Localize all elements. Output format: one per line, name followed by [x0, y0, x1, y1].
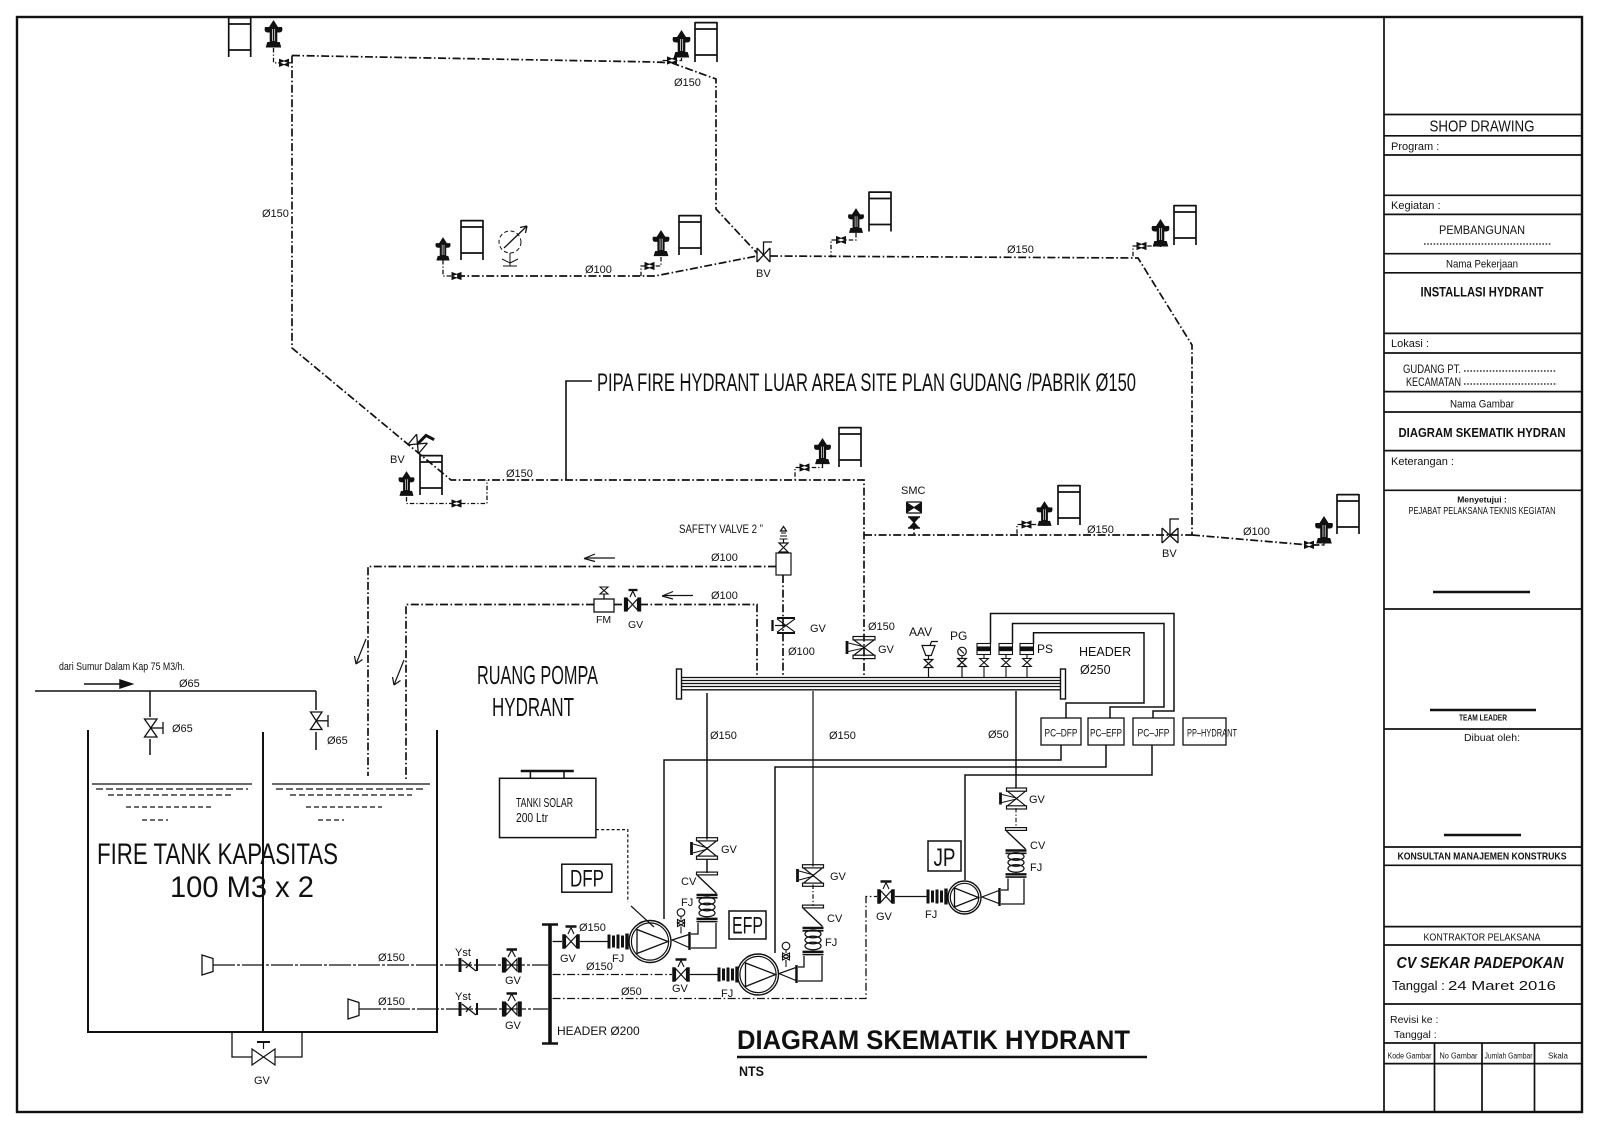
JP pump: [948, 881, 981, 914]
header O200 bar: [542, 925, 558, 1044]
svg-text:FJ: FJ: [925, 909, 937, 921]
SMC symbol: [907, 502, 922, 528]
y-strainer 1: [460, 958, 477, 972]
svg-text:GV: GV: [878, 644, 895, 656]
svg-text:GV: GV: [672, 983, 689, 995]
svg-text:GV: GV: [254, 1075, 271, 1087]
JP GV top: [1001, 788, 1027, 809]
hydrant box B9: [420, 455, 442, 495]
svg-text:Ø150: Ø150: [262, 208, 289, 220]
EFP pump: [738, 954, 779, 995]
valve V7: [1022, 521, 1031, 528]
svg-text:SMC: SMC: [901, 485, 926, 497]
EFP riser pipe: [812, 691, 814, 906]
pipe main left loop O150: [292, 56, 1319, 678]
tank water level tank2: [272, 784, 430, 820]
control line PC-EFP to pump: [775, 745, 1106, 953]
control box PC-DFP: [1041, 718, 1081, 745]
svg-text:Ø150: Ø150: [674, 77, 701, 89]
pipe O100 branch: [457, 256, 757, 276]
safety valve symbol: [776, 527, 791, 576]
hydrant pillar H7: [1037, 501, 1053, 526]
svg-text:Keterangan :: Keterangan :: [1391, 456, 1454, 468]
butterfly valve BV2 rotated: [408, 429, 435, 456]
EFP gauge: [782, 942, 790, 967]
svg-text:EFP: EFP: [732, 913, 763, 940]
control box PC-JFP: [1133, 718, 1174, 745]
svg-text:DIAGRAM SKEMATIK HYDRANT: DIAGRAM SKEMATIK HYDRANT: [737, 1025, 1130, 1055]
svg-text:GV: GV: [628, 619, 643, 631]
svg-text:Ø150: Ø150: [378, 996, 405, 1008]
header O250: [677, 669, 1066, 699]
svg-text:Ø65: Ø65: [172, 723, 193, 735]
tank water level tank1: [92, 784, 252, 820]
svg-text:PC–DFP: PC–DFP: [1045, 728, 1078, 740]
suction pipe 1: [213, 964, 548, 966]
EFP outlet cone: [779, 968, 796, 981]
JP elbow: [1000, 879, 1025, 907]
svg-text:HEADER Ø200: HEADER Ø200: [557, 1024, 640, 1038]
JP inlet cone: [982, 891, 999, 904]
svg-text:Ø150: Ø150: [1087, 524, 1114, 536]
svg-text:PP–HYDRANT: PP–HYDRANT: [1187, 728, 1237, 740]
svg-text:Nama Pekerjaan: Nama Pekerjaan: [1446, 259, 1518, 271]
pipe mid O150 run: [864, 534, 1192, 536]
svg-text:RUANG POMPA: RUANG POMPA: [477, 660, 598, 690]
arrow left line B: [662, 592, 693, 600]
pipe right O100 branch: [1192, 535, 1303, 545]
svg-text:KECAMATAN: KECAMATAN: [1406, 377, 1461, 389]
svg-text:Ø250: Ø250: [1080, 663, 1111, 677]
DFP outlet cone: [672, 935, 689, 948]
svg-text:FJ: FJ: [825, 937, 837, 949]
svg-text:PEJABAT PELAKSANA TEKNIS KEGIA: PEJABAT PELAKSANA TEKNIS KEGIATAN: [1409, 505, 1556, 517]
EFP riser FJ: [803, 930, 824, 954]
svg-text:Kode Gambar: Kode Gambar: [1388, 1052, 1432, 1061]
valve V1: [279, 59, 288, 66]
gate valve GV beside FM: [625, 590, 641, 611]
pipe top run O150: [292, 56, 757, 254]
DFP elbow: [690, 923, 717, 950]
svg-text:JP: JP: [934, 844, 956, 872]
gate valve suction 2: [503, 994, 522, 1017]
valve V8: [1304, 541, 1313, 548]
text RUANG POMPA HYDRANT: [477, 660, 598, 722]
svg-text:Skala: Skala: [1548, 1052, 1569, 1061]
hydrant pillar H1: [265, 20, 283, 48]
EFP suction GV: [673, 960, 690, 982]
drain valve GV: [252, 1042, 275, 1065]
hydrant pillar H3: [1152, 219, 1170, 247]
AAV symbol: [922, 642, 938, 678]
valve V9: [452, 500, 461, 507]
svg-text:Revisi ke :: Revisi ke :: [1390, 1014, 1438, 1026]
gate valve on safety drop: [773, 618, 796, 633]
tanki solar box: [500, 771, 596, 838]
svg-text:GV: GV: [560, 953, 577, 965]
JP supply from header: [1015, 691, 1017, 788]
svg-text:SHOP DRAWING: SHOP DRAWING: [1430, 119, 1535, 136]
svg-text:SAFETY VALVE 2 ”: SAFETY VALVE 2 ”: [679, 524, 763, 536]
svg-text:NTS: NTS: [739, 1063, 764, 1079]
svg-text:BV: BV: [390, 454, 405, 466]
svg-text:PEMBANGUNAN: PEMBANGUNAN: [1439, 223, 1525, 237]
svg-text:Lokasi :: Lokasi :: [1391, 338, 1429, 350]
svg-text:200 Ltr: 200 Ltr: [516, 810, 549, 825]
svg-text:DIAGRAM SKEMATIK HYDRAN: DIAGRAM SKEMATIK HYDRAN: [1399, 425, 1566, 440]
control box PC-EFP: [1088, 718, 1124, 745]
arrow dari sumur: [84, 680, 132, 688]
svg-text:24 Maret 2016: 24 Maret 2016: [1448, 978, 1556, 993]
leader line PIPA FIRE HYDRANT: [566, 381, 592, 480]
bellmouth 2: [348, 999, 359, 1019]
svg-text:GV: GV: [876, 911, 893, 923]
svg-text:Ø150: Ø150: [829, 730, 856, 742]
svg-text:AAV: AAV: [909, 625, 932, 639]
svg-text:Ø150: Ø150: [1007, 244, 1034, 256]
JP suction pipe: [895, 896, 928, 898]
svg-text:Ø150: Ø150: [506, 468, 533, 480]
valve V10: [836, 236, 845, 243]
label HEADER O250: [1079, 645, 1131, 677]
DFP riser CV: [697, 872, 718, 898]
DFP riser FJ: [697, 897, 718, 921]
title underline: [737, 1056, 1147, 1059]
svg-text:DFP: DFP: [570, 866, 604, 893]
valve V6: [800, 464, 809, 471]
EFP riser CV: [803, 905, 824, 931]
flow meter FM: [594, 587, 614, 612]
O50 bottom line: [553, 897, 878, 999]
DFP box: [562, 864, 612, 892]
text FIRE TANK KAPASITAS 100 M3 x 2: [97, 838, 338, 904]
hydrant box B1: [229, 17, 251, 57]
butterfly valve BV3: [1162, 519, 1179, 543]
PS symbol 2: [999, 644, 1013, 678]
hydrant box B6: [839, 427, 861, 467]
svg-text:Tanggal :: Tanggal :: [1394, 1029, 1437, 1041]
hydrant pillar H8: [1315, 516, 1333, 544]
svg-text:FJ: FJ: [612, 953, 624, 965]
hydrant pillar H9: [399, 471, 415, 496]
PS symbol 3: [1020, 644, 1034, 678]
svg-text:Ø100: Ø100: [788, 646, 815, 658]
fuel line to DFP pump: [596, 830, 654, 927]
hydrant pillar H4: [435, 237, 450, 260]
svg-text:Ø100: Ø100: [585, 264, 612, 276]
pipe after BV1 to right corner: [770, 256, 1192, 535]
tree symbol: [499, 226, 527, 266]
svg-text:FJ: FJ: [1030, 862, 1042, 874]
big gate valve main drop: [847, 637, 875, 659]
arrow down line B: [393, 660, 405, 685]
pump room line A O100: [368, 522, 914, 780]
JP dash to CV: [1015, 808, 1017, 828]
svg-text:Ø65: Ø65: [179, 678, 200, 690]
svg-text:Ø150: Ø150: [378, 952, 405, 964]
DFP riser pipe: [706, 693, 708, 873]
EFP riser GV: [798, 865, 824, 887]
DFP riser GV: [692, 838, 718, 860]
valve V5: [645, 262, 654, 269]
svg-text:GV: GV: [830, 871, 847, 883]
suction pipe 2: [359, 1008, 548, 1010]
hydrant pillar H5: [653, 230, 670, 256]
tank drain pipe: [232, 1032, 302, 1057]
JP box: [928, 841, 961, 871]
arrow down line A: [355, 639, 367, 664]
svg-text:CV: CV: [681, 876, 697, 888]
svg-text:Ø150: Ø150: [710, 730, 737, 742]
valve O65 no1: [145, 719, 164, 737]
svg-text:Kegiatan :: Kegiatan :: [1391, 200, 1441, 212]
svg-text:PG: PG: [950, 629, 967, 643]
svg-text:Ø100: Ø100: [1243, 526, 1270, 538]
DFP suction FJ: [609, 934, 627, 950]
DFP pump: [629, 921, 671, 963]
JP suction GV: [878, 882, 895, 904]
valve O65 no2: [311, 712, 329, 730]
arrow left line A: [584, 554, 615, 562]
safety valve drop O100: [782, 575, 784, 677]
hydrant box B8: [1337, 494, 1359, 534]
DFP gauge: [677, 909, 685, 934]
svg-text:BV: BV: [756, 268, 771, 280]
gate valve suction 1: [503, 950, 522, 973]
svg-text:CV: CV: [1030, 840, 1046, 852]
EFP suction pipe: [553, 974, 719, 976]
wire loop middle to PC-EFP: [1013, 624, 1165, 719]
control line PC-JFP to pump: [965, 745, 1152, 880]
svg-text:KONTRAKTOR PELAKSANA: KONTRAKTOR PELAKSANA: [1424, 932, 1541, 944]
hydrant box B2: [695, 22, 717, 62]
svg-text:INSTALLASI HYDRANT: INSTALLASI HYDRANT: [1421, 285, 1545, 300]
control box PP-HYDRANT: [1183, 718, 1226, 745]
wire loop outer to PC-JFP: [991, 614, 1175, 719]
valve V4: [452, 272, 461, 279]
svg-text:Dibuat oleh:: Dibuat oleh:: [1464, 732, 1520, 744]
svg-text:dari Sumur Dalam Kap 75 M3/h.: dari Sumur Dalam Kap 75 M3/h.: [59, 661, 185, 673]
svg-text:Ø150: Ø150: [868, 621, 895, 633]
hydrant box B10: [869, 192, 891, 232]
svg-text:GV: GV: [505, 1020, 522, 1032]
valve V3: [1137, 242, 1146, 249]
svg-text:FIRE TANK KAPASITAS: FIRE TANK KAPASITAS: [97, 838, 338, 871]
hydrant box B5: [679, 215, 701, 255]
fire tank walls: [88, 730, 437, 1032]
svg-text:GV: GV: [505, 975, 522, 987]
hydrant branch connectors: [274, 48, 1325, 545]
svg-text:Yst: Yst: [455, 947, 471, 959]
svg-text:TANKI SOLAR: TANKI SOLAR: [516, 795, 573, 810]
svg-text:Jumlah Gambar: Jumlah Gambar: [1485, 1052, 1533, 1061]
svg-text:Ø150: Ø150: [586, 961, 613, 973]
svg-text:GV: GV: [810, 623, 827, 635]
hydrant box B7: [1058, 485, 1080, 525]
svg-text:Yst: Yst: [455, 991, 471, 1003]
svg-text:PC–JFP: PC–JFP: [1138, 728, 1170, 740]
svg-text:Ø65: Ø65: [327, 735, 348, 747]
svg-text:Menyetujui :: Menyetujui :: [1457, 495, 1507, 505]
hydrant box B4: [461, 220, 483, 260]
butterfly valve BV1: [757, 242, 772, 262]
svg-text:PIPA FIRE HYDRANT LUAR AREA S: PIPA FIRE HYDRANT LUAR AREA SITE PLAN GU…: [597, 369, 1136, 397]
EFP box: [729, 911, 766, 939]
svg-text:CV SEKAR PADEPOKAN: CV SEKAR PADEPOKAN: [1397, 955, 1565, 972]
pump room line B O100: [406, 605, 594, 781]
svg-text:HYDRANT: HYDRANT: [492, 692, 574, 722]
hydrant pillar H10: [848, 208, 864, 233]
DFP suction GV: [563, 927, 580, 949]
EFP elbow: [797, 956, 823, 983]
JP CV: [1006, 828, 1027, 854]
svg-text:FJ: FJ: [681, 897, 693, 909]
svg-text:Ø100: Ø100: [711, 552, 738, 564]
valve V2: [667, 57, 676, 64]
svg-text:CV: CV: [827, 913, 843, 925]
text TANKI SOLAR 200 Ltr: [516, 795, 573, 825]
hydrant pillar H2: [673, 30, 691, 58]
svg-text:PS: PS: [1037, 642, 1053, 656]
control line PC-DFP to pump: [664, 745, 1152, 953]
svg-text:Ø100: Ø100: [711, 590, 738, 602]
title block signature lines: [1424, 244, 1557, 835]
svg-text:Tanggal :: Tanggal :: [1392, 978, 1445, 993]
svg-text:FM: FM: [596, 614, 611, 626]
svg-text:Program :: Program :: [1391, 141, 1439, 153]
svg-text:TEAM LEADER: TEAM LEADER: [1459, 713, 1507, 723]
hydrant box B3: [1174, 205, 1196, 245]
svg-text:GV: GV: [721, 844, 738, 856]
y-strainer 2: [460, 1002, 477, 1016]
SMC stub: [913, 522, 915, 535]
fill line dari sumur: [35, 691, 316, 755]
JP FJ: [1006, 853, 1027, 877]
svg-text:GUDANG PT.: GUDANG PT.: [1403, 364, 1461, 376]
title block texts: [1388, 119, 1569, 1061]
svg-text:KONSULTAN MANAJEMEN KONSTRUKS: KONSULTAN MANAJEMEN KONSTRUKS: [1398, 851, 1567, 863]
svg-text:Ø50: Ø50: [988, 729, 1009, 741]
svg-text:PC–EFP: PC–EFP: [1090, 728, 1122, 740]
svg-text:Ø50: Ø50: [621, 986, 642, 998]
svg-text:Ø150: Ø150: [579, 922, 606, 934]
svg-text:Nama Gambar: Nama Gambar: [1450, 399, 1514, 411]
svg-text:No Gambar: No Gambar: [1440, 1052, 1478, 1061]
svg-text:100 M3 x 2: 100 M3 x 2: [170, 871, 314, 904]
PG symbol: [958, 647, 967, 677]
hydrant pillar H6: [814, 438, 831, 464]
EFP suction FJ: [719, 967, 737, 983]
svg-text:HEADER: HEADER: [1079, 645, 1131, 659]
wire loop inner to PC-DFP: [1034, 633, 1145, 718]
DFP suction pipe: [553, 941, 609, 943]
svg-text:GV: GV: [1029, 794, 1046, 806]
JP suction FJ: [928, 889, 946, 905]
svg-text:BV: BV: [1162, 548, 1177, 560]
title block grid: [1384, 17, 1582, 1112]
bellmouth 1: [202, 955, 213, 975]
PS symbol 1: [977, 644, 991, 678]
